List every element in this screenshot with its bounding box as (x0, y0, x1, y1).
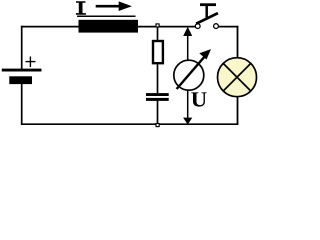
switch S right contact (214, 24, 219, 29)
battery cell: negative thick plate (9, 76, 32, 84)
wire top-left horizontal (battery + to inductor) (21, 26, 79, 28)
switch S (open) : left contact (195, 24, 200, 29)
voltmeter needle arrowhead (199, 49, 211, 59)
voltage arrow U: vertical line (187, 33, 189, 119)
battery cell: positive long plate (2, 69, 42, 72)
wire node A down to resistor R (157, 27, 159, 41)
lamp cross line 1 (223, 63, 251, 91)
battery plus sign (26, 57, 36, 68)
switch S handle stem (205, 5, 208, 18)
current label I (76, 1, 86, 15)
voltage arrow U: top arrowhead (up) (183, 27, 192, 36)
wire resistor R to capacitor C (157, 63, 159, 94)
switch S handle bar (200, 3, 216, 6)
voltmeter needle (177, 54, 207, 89)
wire battery minus to bottom-left corner (21, 83, 23, 125)
inductor L (solid rectangle) (79, 20, 139, 33)
current arrow (right) (96, 1, 132, 11)
wire left vertical (top corner to battery) (21, 26, 23, 70)
voltage label U (191, 92, 206, 106)
lamp E (circle) (218, 58, 257, 97)
wire capacitor C to node B (157, 101, 159, 125)
wire right vertical (to lamp) (237, 26, 239, 59)
capacitor C top plate (146, 93, 169, 96)
node B (junction on bottom wire) (156, 124, 159, 127)
switch S lever (196, 13, 218, 24)
voltmeter V body (174, 60, 204, 90)
node A (junction on top wire) (156, 24, 159, 27)
label underline over inductor (77, 15, 136, 17)
resistor R (vertical rectangle) (153, 41, 163, 63)
wire lamp to bottom-right corner (237, 96, 239, 126)
capacitor C bottom plate (146, 98, 169, 101)
wire node A to switch (159, 26, 196, 28)
wire top middle (inductor to node A) (137, 26, 156, 28)
wire bottom horizontal (21, 123, 238, 125)
wire switch to top-right corner (218, 26, 238, 28)
voltage arrow U: bottom arrowhead (down) (183, 118, 192, 125)
lamp cross line 2 (223, 63, 251, 91)
